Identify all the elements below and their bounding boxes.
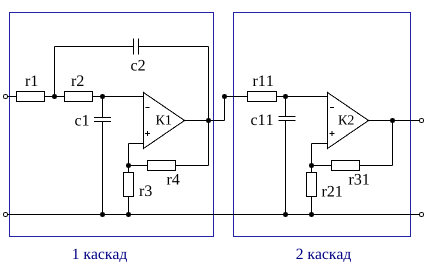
wire r4 to feedback riser [176,165,209,167]
wire node C to r3 top [128,166,130,173]
wire plus input riser down [128,144,130,166]
wire r3 bottom to rail [128,197,130,215]
wire op-amp U2 plus input left [312,143,328,145]
node E junction dot [309,163,314,168]
capacitor C1 [94,118,111,122]
op-amp U2 [328,93,369,149]
wire node E to r31 [312,165,332,167]
wire node B down to c1 [102,97,104,118]
wire op-amp U1 output [185,120,225,122]
junction dot c1 at rail [100,212,105,217]
caption 1 каскад [73,249,127,262]
caption 2 каскад [296,249,351,262]
node B junction dot [100,94,105,99]
wire feedback right riser down to r4 [208,47,210,166]
op-amp U1 [144,93,185,149]
wire c1 down to ground rail [102,122,104,215]
label r21 [322,186,342,197]
wire r2 to op-amp inverting input [93,96,144,98]
label r3 [139,185,151,196]
wire top feedback left segment [55,46,134,48]
node A junction dot [52,94,57,99]
label r11 [253,75,273,86]
wire feedback riser up from node A [54,47,56,97]
wire interstage to r11 [225,96,248,98]
wire input to r1 [8,96,17,98]
label r31 [349,174,369,185]
resistor R21 [307,173,317,197]
wire output riser up [392,121,394,166]
capacitor C2 [134,39,139,55]
ground rail left terminal [4,213,8,217]
resistor R2 [65,92,93,102]
resistor R1 [17,92,45,102]
wire node C to r4 [129,165,148,167]
stage 1 boundary box [10,13,214,237]
op-amp U1 plus sign [145,131,150,136]
input terminal [4,95,8,99]
junction dot c11 at rail [283,212,288,217]
label K1 [156,115,171,124]
label K2 [338,115,353,124]
node D junction dot [283,94,288,99]
resistor R11 [248,92,277,102]
label r2 [71,75,83,86]
op-amp U1 minus sign [146,107,150,109]
resistor R3 [124,173,134,197]
label c2 [131,60,145,71]
ground rail right terminal [420,213,424,217]
wire interstage riser up [224,97,226,121]
ground rail wire [8,214,420,216]
junction dot output node U2 [390,118,395,123]
junction dot r3 at rail [126,212,131,217]
label c1 [75,115,89,126]
junction dot output node U1 [206,118,211,123]
resistor R4 [148,161,176,171]
wire r11 to op-amp U2 inverting input [277,96,328,98]
capacitor C11 [279,117,296,121]
label r1 [25,75,37,86]
junction dot r21 at rail [309,212,314,217]
wire op-amp plus input left [129,143,144,145]
stage 2 boundary box [234,13,411,237]
wire node E to r21 top [311,166,313,173]
wire c11 down to rail [285,121,287,215]
op-amp U2 minus sign [330,107,334,109]
wire node D down to c11 [285,97,287,117]
junction dot interstage [222,94,227,99]
op-amp U2 plus sign [330,131,335,136]
wire r21 bottom to rail [311,197,313,215]
wire top feedback right segment [139,46,209,48]
resistor R31 [332,161,360,171]
wire r31 to output riser [360,165,393,167]
node C junction dot [126,163,131,168]
wire U2 plus riser down [311,144,313,166]
label c11 [251,114,273,125]
label r4 [167,174,180,185]
wire r1 to r2 [45,96,65,98]
output terminal [420,119,424,123]
wire op-amp U2 output [369,120,420,122]
